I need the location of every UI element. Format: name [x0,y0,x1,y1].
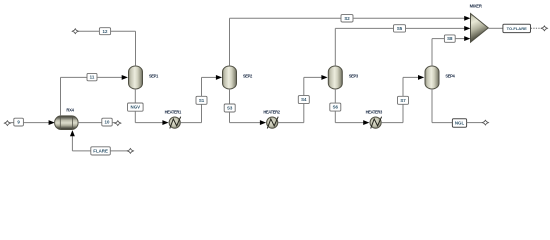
svg-text:12: 12 [103,29,108,34]
svg-text:RX4: RX4 [66,108,74,113]
svg-text:SEP1: SEP1 [149,74,159,79]
svg-text:S2: S2 [344,16,350,21]
svg-text:SEP4: SEP4 [445,74,455,79]
svg-text:S8: S8 [447,36,453,41]
svg-text:S4: S4 [301,97,307,102]
svg-text:S3: S3 [227,106,233,111]
svg-text:TO-FLARE: TO-FLARE [507,26,527,31]
svg-text:HEATER1: HEATER1 [165,110,182,115]
svg-text:S1: S1 [199,98,205,103]
svg-text:HEATER2: HEATER2 [263,110,280,115]
svg-text:10: 10 [105,120,110,125]
svg-text:FLARE: FLARE [93,149,108,154]
svg-text:S7: S7 [400,98,406,103]
svg-text:SEP2: SEP2 [243,74,253,79]
svg-text:MIXER: MIXER [470,4,482,9]
svg-text:11: 11 [90,75,95,80]
svg-text:S6: S6 [333,105,339,110]
svg-text:HEATER3: HEATER3 [366,110,383,115]
svg-text:NGL: NGL [455,121,465,126]
svg-text:NGV: NGV [131,105,141,110]
svg-text:SEP3: SEP3 [349,74,359,79]
svg-text:S5: S5 [397,26,403,31]
